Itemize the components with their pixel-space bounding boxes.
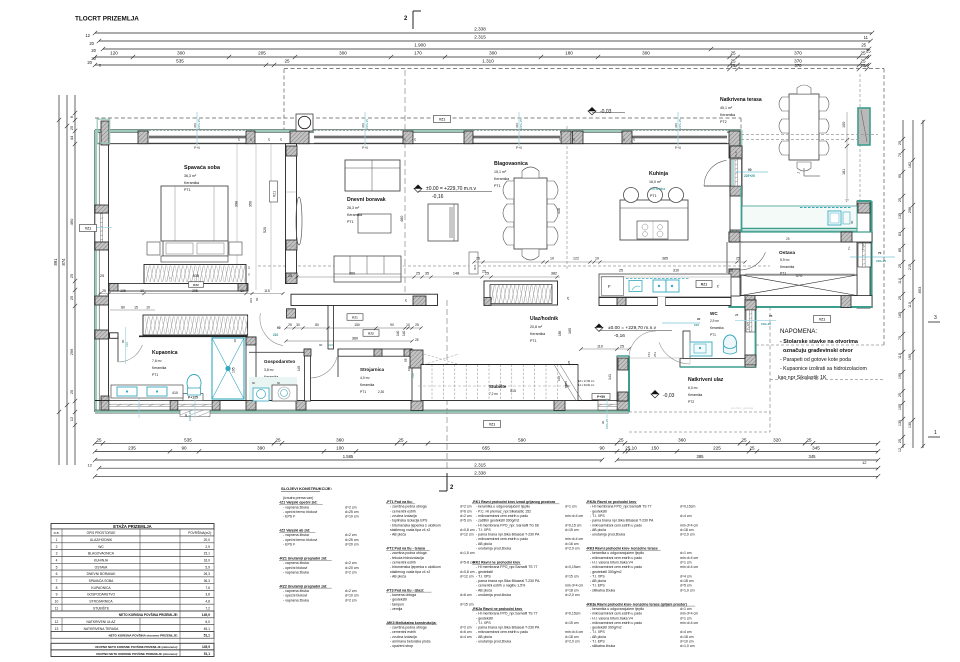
svg-text:d=6 cm: d=6 cm [460, 593, 472, 597]
svg-text:RZ2: RZ2 [368, 331, 374, 335]
svg-text:P+0: P+0 [734, 151, 738, 157]
svg-text:390: 390 [257, 446, 265, 451]
svg-text:410: 410 [172, 391, 178, 395]
svg-text:153: 153 [647, 352, 651, 357]
svg-text:d=20 cm: d=20 cm [345, 566, 359, 570]
kitchen counter [742, 206, 857, 231]
svg-text:230: 230 [411, 373, 415, 378]
svg-text:25: 25 [731, 63, 736, 68]
svg-text:122: 122 [573, 257, 579, 261]
wall bedroom-living [286, 144, 297, 284]
svg-text:- T.I. XPS: - T.I. XPS [476, 528, 491, 532]
svg-text:d=1,0 cm: d=1,0 cm [680, 644, 695, 648]
svg-text:75: 75 [769, 314, 773, 318]
svg-text:25: 25 [618, 437, 624, 442]
svg-text:44: 44 [69, 135, 74, 140]
west wall piers [95, 205, 109, 213]
svg-text:- mikroarmirani cem.estrih u p: - mikroarmirani cem.estrih u padu [590, 523, 642, 527]
svg-text:12: 12 [69, 416, 74, 421]
svg-text:25: 25 [730, 51, 736, 56]
svg-text:235: 235 [128, 446, 136, 451]
corridor wall x328 [328, 306, 334, 350]
svg-text:Po: Po [847, 246, 851, 250]
svg-text:Keramika: Keramika [650, 187, 665, 191]
svg-text:d=0,8 cm: d=0,8 cm [460, 570, 475, 574]
svg-text:16,0: 16,0 [204, 559, 211, 563]
svg-text:min d=4 cm: min d=4 cm [680, 612, 698, 616]
svg-text:min d=4 cm: min d=4 cm [565, 514, 583, 518]
svg-text:- mikroarmirani cem.estrih u p: - mikroarmirani cem.estrih u padu [476, 514, 528, 518]
svg-text:d=10 cm: d=10 cm [345, 594, 359, 598]
svg-text:382: 382 [551, 272, 557, 276]
svg-text:- bitumenska ljepenka s uloško: - bitumenska ljepenka s uloškom [390, 523, 441, 527]
svg-text:25: 25 [416, 272, 420, 276]
svg-text:- mikroarmirani cem.estrih u p: - mikroarmirani cem.estrih u padu [476, 630, 528, 634]
svg-text:385: 385 [662, 257, 668, 261]
svg-text:staklenog voala tipa v4 x2: staklenog voala tipa v4 x2 [390, 570, 430, 574]
svg-text:P+0: P+0 [516, 146, 522, 150]
svg-text:d=1,5 cm: d=1,5 cm [460, 551, 475, 555]
svg-text:d=18 cm: d=18 cm [680, 528, 694, 532]
svg-text:85: 85 [898, 248, 902, 252]
svg-text:kao npr Sikalastik 1K: kao npr Sikalastik 1K [778, 375, 827, 381]
svg-text:d=4 cm: d=4 cm [680, 574, 692, 578]
right markers 3 and 1 [928, 321, 940, 323]
svg-text:d=2 cm: d=2 cm [345, 598, 357, 602]
svg-text:100+25: 100+25 [605, 419, 609, 429]
svg-text:10: 10 [146, 306, 150, 310]
svg-text:25,10: 25,10 [625, 446, 637, 451]
svg-text:- HI membrana FPO_npr.Sarnafil: - HI membrana FPO_npr.Sarnafil TS 77 [476, 565, 537, 569]
svg-text:-RK2 Ravni ne prohodni krov: -RK2 Ravni ne prohodni krov [472, 560, 520, 564]
svg-text:Keramika: Keramika [184, 181, 199, 185]
svg-text:80: 80 [315, 323, 319, 327]
stools [624, 188, 639, 203]
svg-text:300: 300 [177, 51, 185, 56]
VZ1 label right [814, 316, 831, 323]
svg-text:- završna podna obloga: - završna podna obloga [390, 505, 427, 509]
svg-text:2,30: 2,30 [378, 390, 384, 394]
svg-text:- H.I. varena bitum.traka V4: - H.I. varena bitum.traka V4 [590, 560, 633, 564]
svg-text:KUPAONICA: KUPAONICA [91, 586, 111, 590]
svg-text:TLOCRT PRIZEMLJA: TLOCRT PRIZEMLJA [75, 16, 139, 23]
svg-text:360: 360 [349, 272, 355, 276]
svg-text:SLOJEVI KONSTRUKCIJE:: SLOJEVI KONSTRUKCIJE: [281, 486, 332, 491]
svg-text:25: 25 [398, 437, 404, 442]
hall 360 dim [286, 340, 412, 342]
toilet bathroom [187, 375, 201, 392]
svg-text:- tampon: - tampon [390, 602, 404, 606]
svg-text:4: 4 [56, 559, 58, 563]
window W2 [314, 130, 403, 143]
svg-text:d=16 cm: d=16 cm [565, 542, 579, 546]
bathroom north wall stub [110, 333, 119, 339]
svg-text:70: 70 [878, 251, 882, 255]
svg-text:d=25 cm: d=25 cm [345, 510, 359, 514]
svg-text:d=18 cm: d=18 cm [565, 635, 579, 639]
svg-text:25: 25 [729, 269, 733, 273]
svg-text:25: 25 [275, 437, 281, 442]
gospodarstvo north wall [249, 351, 305, 353]
svg-text:- HI membrana FPO_npr. Sarnafi: - HI membrana FPO_npr. Sarnafil TG 66 [476, 523, 539, 527]
svg-text:1: 1 [56, 538, 58, 542]
svg-text:STUBIŠTE: STUBIŠTE [93, 605, 110, 610]
svg-text:STROJARNICA: STROJARNICA [89, 599, 113, 603]
svg-text:-PT3 Pod na tlu - izlazi:: -PT3 Pod na tlu - izlazi: [386, 588, 424, 592]
svg-text:63: 63 [898, 232, 902, 236]
svg-text:5,9: 5,9 [205, 565, 210, 569]
svg-text:225+25: 225+25 [519, 119, 523, 129]
section marker 2 bottom [446, 473, 448, 491]
svg-text:89: 89 [255, 297, 259, 301]
window W3 [473, 130, 560, 143]
svg-text:- zemlja: - zemlja [390, 607, 402, 611]
svg-text:12: 12 [88, 462, 93, 467]
svg-text:d=10 cm: d=10 cm [345, 515, 359, 519]
hallway dim row [286, 327, 421, 329]
svg-text:- EPS F: - EPS F [283, 543, 295, 547]
svg-text:- keramika u odgovarajućem lje: - keramika u odgovarajućem ljepilu [590, 551, 644, 555]
window W1 bedroom [149, 130, 246, 143]
top dimension lines [95, 32, 872, 34]
svg-text:15: 15 [134, 306, 138, 310]
svg-text:d=15 cm: d=15 cm [565, 621, 579, 625]
svg-text:d=2 cm: d=2 cm [345, 561, 357, 565]
svg-text:d=20 cm: d=20 cm [345, 543, 359, 547]
svg-text:- cementni estrih: - cementni estrih [390, 560, 416, 564]
svg-text:min d=4 cm: min d=4 cm [565, 584, 583, 588]
svg-text:- završna podna obloga: - završna podna obloga [390, 551, 427, 555]
terrace elev [588, 107, 596, 111]
svg-text:398: 398 [235, 201, 239, 207]
svg-text:- vapnena žbuka: - vapnena žbuka [283, 505, 309, 509]
svg-text:296: 296 [69, 348, 74, 355]
svg-text:30: 30 [296, 323, 300, 327]
svg-text:90: 90 [697, 317, 701, 321]
svg-text:OPIS PROSTORIJE: OPIS PROSTORIJE [87, 531, 116, 535]
VZ1 label bottom [484, 421, 501, 428]
svg-text:d=18 cm: d=18 cm [680, 579, 694, 583]
svg-text:d=12 cm: d=12 cm [460, 574, 474, 578]
svg-text:145,9: 145,9 [202, 613, 210, 617]
svg-text:145: 145 [297, 365, 301, 371]
svg-text:12: 12 [55, 620, 59, 624]
svg-text:PT1: PT1 [152, 373, 158, 377]
bed [161, 186, 228, 241]
svg-text:PT1: PT1 [360, 390, 366, 394]
svg-text:-RK3 Ravni prohodni krov- konz: -RK3 Ravni prohodni krov- konzolne teras… [586, 547, 658, 551]
svg-text:25: 25 [404, 298, 408, 302]
svg-text:181: 181 [842, 169, 846, 175]
svg-text:36,3 m²: 36,3 m² [184, 174, 197, 178]
svg-text:d=12 cm: d=12 cm [460, 533, 474, 537]
svg-text:25: 25 [415, 338, 419, 342]
svg-text:190: 190 [898, 373, 902, 379]
stairs landing dashes [424, 354, 459, 365]
svg-text:90: 90 [390, 323, 394, 327]
svg-text:- geotekstil: - geotekstil [476, 570, 493, 574]
svg-text:min d=4 cm: min d=4 cm [565, 537, 583, 541]
svg-text:-RK2a Ravni ne prohodni krov: -RK2a Ravni ne prohodni krov [472, 607, 522, 611]
svg-text:145,9: 145,9 [202, 645, 210, 649]
svg-text:- toplinska izolacija EPS: - toplinska izolacija EPS [390, 519, 428, 523]
svg-text:- geotekstil: - geotekstil [476, 616, 493, 620]
svg-text:- geotekstil: - geotekstil [390, 598, 407, 602]
svg-text:345: 345 [812, 446, 820, 451]
kitchen west wall [730, 146, 742, 242]
svg-text:(iznutra prema van): (iznutra prema van) [283, 496, 313, 500]
svg-text:135: 135 [898, 213, 902, 219]
svg-text:Keramika: Keramika [780, 265, 794, 269]
tv cabinet [428, 204, 458, 241]
svg-text:- mikroarmirani cem.estrih u p: - mikroarmirani cem.estrih u padu [590, 612, 642, 616]
svg-text:WC: WC [710, 311, 718, 316]
svg-text:10: 10 [406, 323, 410, 327]
section marker 2 top [412, 11, 414, 29]
window W4 [632, 130, 727, 143]
svg-text:10: 10 [233, 339, 237, 343]
bedroom south wall [109, 284, 248, 292]
svg-text:min d=4 cm: min d=4 cm [680, 621, 698, 625]
svg-text:13: 13 [55, 627, 59, 631]
svg-text:891: 891 [53, 258, 58, 266]
NW corner teal jog [97, 119, 110, 143]
svg-text:Natkriveni ulaz: Natkriveni ulaz [688, 377, 724, 383]
svg-text:25: 25 [288, 323, 292, 327]
svg-text:- silikatna žbuka: - silikatna žbuka [590, 644, 615, 648]
RZ1 rotated box [270, 181, 278, 202]
svg-text:GOSPODARSTVO: GOSPODARSTVO [87, 593, 115, 597]
svg-text:6,0: 6,0 [205, 620, 210, 624]
svg-text:d=0,15cm: d=0,15cm [680, 505, 696, 509]
NE corner [727, 130, 742, 133]
svg-text:- AB ploča: - AB ploča [590, 579, 606, 583]
cooktop [637, 221, 668, 239]
svg-text:370: 370 [795, 63, 803, 68]
svg-text:±0.00 = +229,70 m.n.v: ±0.00 = +229,70 m.n.v [608, 325, 657, 331]
svg-text:NETO KORISNA POVŠINA PRIZEMLJ: NETO KORISNA POVŠINA PRIZEMLJE: [119, 612, 178, 617]
svg-text:d=4 cm: d=4 cm [680, 630, 692, 634]
washing machine [272, 385, 297, 401]
svg-text:310: 310 [673, 269, 679, 273]
svg-text:3: 3 [56, 552, 58, 556]
svg-text:25: 25 [786, 237, 790, 241]
svg-text:10: 10 [595, 257, 599, 261]
svg-text:- zvučna izolacija: - zvučna izolacija [390, 514, 417, 518]
section line 2 dashed [404, 70, 406, 300]
svg-text:-0,03: -0,03 [600, 109, 612, 115]
strojarnica north wall [338, 349, 412, 356]
west window [95, 213, 109, 242]
svg-text:11: 11 [55, 606, 59, 610]
svg-text:- T.I. XPS: - T.I. XPS [590, 514, 605, 518]
svg-text:5: 5 [56, 565, 58, 569]
svg-text:515: 515 [510, 389, 516, 393]
svg-text:100: 100 [842, 122, 846, 128]
hall bench hatched [484, 281, 558, 305]
svg-text:25: 25 [96, 437, 102, 442]
svg-text:100: 100 [407, 366, 411, 371]
svg-text:360: 360 [336, 437, 344, 442]
svg-text:d=2 cm: d=2 cm [345, 570, 357, 574]
ostava door [739, 243, 741, 271]
svg-text:d=15 cm: d=15 cm [565, 574, 579, 578]
svg-text:180: 180 [565, 51, 573, 56]
svg-text:2.315: 2.315 [474, 462, 486, 467]
svg-text:7,2: 7,2 [205, 606, 210, 610]
svg-text:d=1 cm: d=1 cm [565, 505, 577, 509]
svg-text:d=6 cm: d=6 cm [460, 509, 472, 513]
svg-text:205: 205 [258, 51, 266, 56]
sofa top [345, 160, 400, 191]
svg-text:2.315: 2.315 [474, 35, 486, 40]
stairs walk line [418, 385, 570, 387]
svg-text:UKUPNO NETO KORISNE POVŠINE PR: UKUPNO NETO KORISNE POVŠINE PRIZEMLJE (z… [95, 644, 178, 649]
svg-text:min d=4 cm: min d=4 cm [680, 556, 698, 560]
svg-text:F: F [608, 284, 611, 289]
svg-text:-RZ1 Unutarnji pregradni zid:: -RZ1 Unutarnji pregradni zid: [279, 556, 327, 560]
svg-text:Keramika: Keramika [530, 332, 545, 336]
svg-text:1.900: 1.900 [414, 43, 426, 48]
svg-text:d=2 cm: d=2 cm [345, 505, 357, 509]
svg-text:26,3 m²: 26,3 m² [347, 206, 360, 210]
svg-text:KUHINJA: KUHINJA [94, 559, 109, 563]
wc west wall [683, 331, 690, 367]
hall east wall [617, 356, 629, 401]
svg-text:20: 20 [87, 60, 92, 65]
svg-text:- Parapeti od gotove kote poda: - Parapeti od gotove kote poda [780, 357, 851, 363]
dashed roof outline [284, 68, 884, 70]
svg-text:- AB ploča: - AB ploča [390, 533, 406, 537]
svg-text:WC: WC [98, 545, 104, 549]
svg-text:-MK3 Međukatna konstrukcija:: -MK3 Međukatna konstrukcija: [386, 621, 437, 625]
svg-text:25: 25 [567, 360, 571, 364]
svg-text:d=1 cm: d=1 cm [680, 551, 692, 555]
svg-text:VZ1: VZ1 [819, 317, 825, 321]
svg-text:d=1,0 cm: d=1,0 cm [680, 588, 695, 592]
svg-text:12: 12 [898, 448, 902, 452]
kitchen south wall band [599, 298, 731, 306]
wc east window [746, 310, 755, 332]
svg-text:- H.I. varena bitum.traka V4: - H.I. varena bitum.traka V4 [590, 616, 633, 620]
svg-text:20: 20 [91, 56, 96, 61]
dashed refs right/bottom [859, 74, 861, 200]
column ellipse living [296, 197, 302, 245]
svg-text:- cementni estrih: - cementni estrih [390, 630, 416, 634]
svg-text:d=2 cm: d=2 cm [345, 533, 357, 537]
svg-text:d=0,8 cm: d=0,8 cm [460, 528, 475, 532]
svg-text:16,0 m²: 16,0 m² [649, 180, 662, 184]
svg-text:BLAGOVAONICA: BLAGOVAONICA [88, 552, 115, 556]
bedroom carpet [145, 297, 263, 355]
wall kupaonica-gospodarstvo [246, 337, 256, 401]
svg-text:36,3: 36,3 [204, 579, 211, 583]
svg-text:130: 130 [908, 422, 912, 428]
svg-text:10: 10 [240, 289, 244, 293]
sofa bottom [334, 256, 401, 282]
svg-text:51,1: 51,1 [204, 652, 210, 656]
svg-text:100+25: 100+25 [761, 322, 771, 326]
svg-text:PT1: PT1 [710, 333, 716, 337]
svg-text:7: 7 [56, 579, 58, 583]
svg-text:141: 141 [608, 374, 612, 380]
svg-text:25: 25 [861, 43, 866, 48]
svg-text:- parna brana npr.Sika Bitusea: - parna brana npr.Sika Bituseal T-230 PA… [476, 579, 540, 583]
svg-text:110: 110 [898, 353, 902, 359]
svg-text:d=25 cm: d=25 cm [345, 538, 359, 542]
svg-text:- mikroarmirani cem.estrih u p: - mikroarmirani cem.estrih u padu [590, 621, 642, 625]
svg-text:- zaštitni geotekstil 300g/m2: - zaštitni geotekstil 300g/m2 [476, 519, 519, 523]
svg-text:- geotekstil: - geotekstil [590, 509, 607, 513]
svg-text:- HI membrana FPO_npr.Sarnafil: - HI membrana FPO_npr.Sarnafil TS 77 [590, 505, 651, 509]
svg-text:d=2 cm: d=2 cm [460, 626, 472, 630]
hall north wall (living south) [291, 294, 438, 305]
svg-text:- unutarnja prod.žbuka: - unutarnja prod.žbuka [476, 640, 511, 644]
svg-text:PT1: PT1 [650, 194, 657, 198]
svg-text:11: 11 [864, 35, 869, 40]
hall elevation [595, 324, 603, 328]
svg-text:190: 190 [908, 354, 912, 360]
svg-text:d=2 cm: d=2 cm [460, 505, 472, 509]
svg-text:Stubište: Stubište [489, 384, 507, 389]
svg-text:NETO KORISNA POVŠINA otvoreno: NETO KORISNA POVŠINA otvoreno PRIZEMLJE: [109, 633, 178, 638]
svg-text:416: 416 [557, 208, 561, 214]
svg-text:225+25: 225+25 [197, 119, 201, 129]
svg-text:2.338: 2.338 [474, 470, 486, 475]
svg-text:25: 25 [69, 389, 74, 394]
svg-text:7,6 m²: 7,6 m² [152, 359, 162, 363]
svg-text:PT1: PT1 [494, 184, 501, 188]
svg-text:- parna brana npr.Sika Bitusea: - parna brana npr.Sika Bituseal T-230 PA [476, 533, 540, 537]
svg-text:- AB ploča: - AB ploča [590, 528, 606, 532]
svg-text:225+25: 225+25 [365, 119, 369, 129]
svg-text:460: 460 [69, 218, 74, 225]
svg-text:140: 140 [396, 330, 400, 336]
dining table [514, 178, 547, 249]
svg-text:- AB ploča: - AB ploča [476, 635, 492, 639]
svg-text:25: 25 [898, 393, 902, 397]
svg-text:360: 360 [352, 337, 358, 341]
svg-text:20,8 m²: 20,8 m² [530, 325, 543, 329]
wc door arc [659, 342, 690, 364]
svg-text:- T.I. EPS: - T.I. EPS [590, 584, 605, 588]
svg-text:535: 535 [193, 274, 199, 278]
svg-text:215: 215 [908, 264, 912, 270]
svg-text:-PT2 Pod na tlu - terasa: -PT2 Pod na tlu - terasa [386, 547, 425, 551]
svg-text:- opečni termo blokovi: - opečni termo blokovi [283, 538, 317, 542]
svg-text:25: 25 [736, 257, 740, 261]
svg-text:- unutarnja prod.žbuka: - unutarnja prod.žbuka [476, 593, 511, 597]
svg-text:300: 300 [489, 51, 497, 56]
svg-text:80: 80 [121, 306, 125, 310]
svg-text:25: 25 [741, 437, 747, 442]
svg-text:12: 12 [862, 460, 867, 465]
bathroom window [109, 401, 170, 411]
svg-text:110: 110 [898, 278, 902, 284]
ostava X storage [741, 275, 857, 296]
kitchen east wall [870, 201, 872, 308]
svg-text:pro-biro_gradnja: pro-biro_gradnja [731, 406, 753, 410]
svg-text:±0.00 = +229,70 m.n.v: ±0.00 = +229,70 m.n.v [426, 186, 477, 192]
svg-text:25: 25 [284, 59, 290, 64]
room schedule table [51, 524, 214, 530]
svg-text:60: 60 [850, 220, 854, 224]
svg-text:d=1 cm: d=1 cm [680, 560, 692, 564]
svg-text:60: 60 [252, 381, 256, 385]
svg-text:označuju građevinski otvor: označuju građevinski otvor [783, 348, 854, 354]
svg-text:P+125: P+125 [861, 241, 865, 250]
svg-text:45,1 m²: 45,1 m² [720, 106, 733, 110]
